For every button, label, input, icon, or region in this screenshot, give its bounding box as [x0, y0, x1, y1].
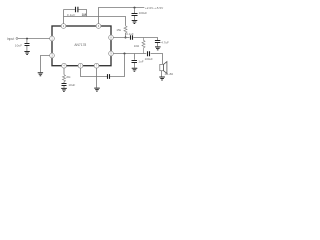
wire cap to ground [26, 46, 28, 51]
resistor R2 15k zigzag [116, 26, 127, 33]
node supply junction [134, 7, 136, 9]
pin 1 left-upper circle (input) [50, 36, 55, 41]
wire cap to output riser [110, 54, 125, 77]
ground bypass cap [155, 47, 161, 50]
pin 4 bottom circle [62, 63, 67, 68]
pin 5 bottom circle [78, 63, 83, 68]
svg-text:AN7178: AN7178 [74, 43, 86, 47]
wire feedback line [64, 17, 126, 26]
capacitor C6 100uF output [145, 51, 153, 61]
capacitor C4 0.1uF snubber [126, 32, 134, 40]
pin 6 top-right circle (VDD) [96, 24, 101, 29]
ground pin 7 [94, 88, 100, 91]
resistor R4 20k zigzag [63, 75, 72, 82]
node feedback/bypass junction [125, 37, 127, 39]
svg-text:0.1uF: 0.1uF [126, 32, 134, 36]
wire speaker to ground [161, 71, 163, 77]
capacitor C9 coupling [108, 74, 110, 79]
wire feedback top branch [64, 10, 87, 17]
svg-text:10Ω: 10Ω [134, 44, 140, 48]
wire pin 5 branch [81, 68, 108, 77]
pin 9 right-lower circle (output) [109, 51, 114, 56]
wire supply cap to ground [134, 16, 136, 20]
pin 7 bottom circle (GND) [94, 63, 99, 68]
wire cap to ground [63, 86, 65, 88]
wire VDD riser [99, 8, 145, 24]
wire bypass cap to ground [157, 43, 159, 46]
capacitor C1 10uF input shunt [15, 43, 30, 47]
wire resistor to cap [63, 82, 65, 83]
speaker LS1 [160, 62, 173, 77]
wire shunt cap to ground [134, 63, 136, 68]
op-amp U1 body [52, 26, 111, 66]
wire output shunt cap branch [134, 54, 136, 60]
wire pin 2 riser [63, 10, 65, 24]
wire supply cap branch [134, 8, 136, 14]
ground speaker [159, 77, 165, 80]
wire pin 9 output line [113, 54, 162, 65]
svg-text:100uF: 100uF [145, 57, 153, 61]
capacitor C3 100uF supply [132, 11, 148, 15]
svg-text:10uF: 10uF [68, 83, 75, 87]
ground supply cap [132, 21, 138, 24]
capacitor C8 10uF [62, 83, 76, 87]
wire resistor to bypass wire [125, 33, 127, 38]
svg-text:100uF: 100uF [139, 11, 148, 15]
pin 2 top-left circle [61, 24, 66, 29]
svg-text:Input: Input [7, 37, 14, 41]
wire pin 8 bypass line [113, 38, 157, 41]
resistor R3 10ohm zigzag zobel [134, 38, 145, 54]
svg-text:+2.0V~+5.5V: +2.0V~+5.5V [145, 6, 164, 10]
wire junction down [26, 39, 28, 44]
svg-text:4.7uF: 4.7uF [161, 41, 169, 45]
wire pin 3 to left [41, 56, 50, 73]
node input junction [26, 38, 28, 40]
ground input cap [24, 52, 29, 55]
capacitor C5 4.7uF bypass [155, 41, 169, 45]
wire pin 7 to ground [96, 68, 98, 88]
Input terminal [7, 37, 18, 41]
svg-text:10uF: 10uF [15, 43, 22, 47]
svg-text:15k: 15k [116, 28, 121, 32]
pin 8 right-upper circle (bypass) [109, 35, 114, 40]
capacitor C2 0.1uF feedback [67, 7, 78, 17]
node output junction [124, 53, 126, 55]
svg-text:1uF: 1uF [138, 60, 143, 64]
ground pin 4 branch [61, 88, 67, 91]
svg-text:4Ω~8Ω: 4Ω~8Ω [165, 72, 174, 76]
ground output shunt [132, 68, 138, 71]
svg-text:20k: 20k [66, 75, 71, 79]
wire pin 4 branch [63, 68, 65, 75]
capacitor C7 1uF output shunt [132, 60, 144, 64]
ground pin 3 [38, 73, 43, 76]
pin 3 left-lower circle [50, 53, 55, 58]
wire input to pin 1 [18, 38, 50, 40]
